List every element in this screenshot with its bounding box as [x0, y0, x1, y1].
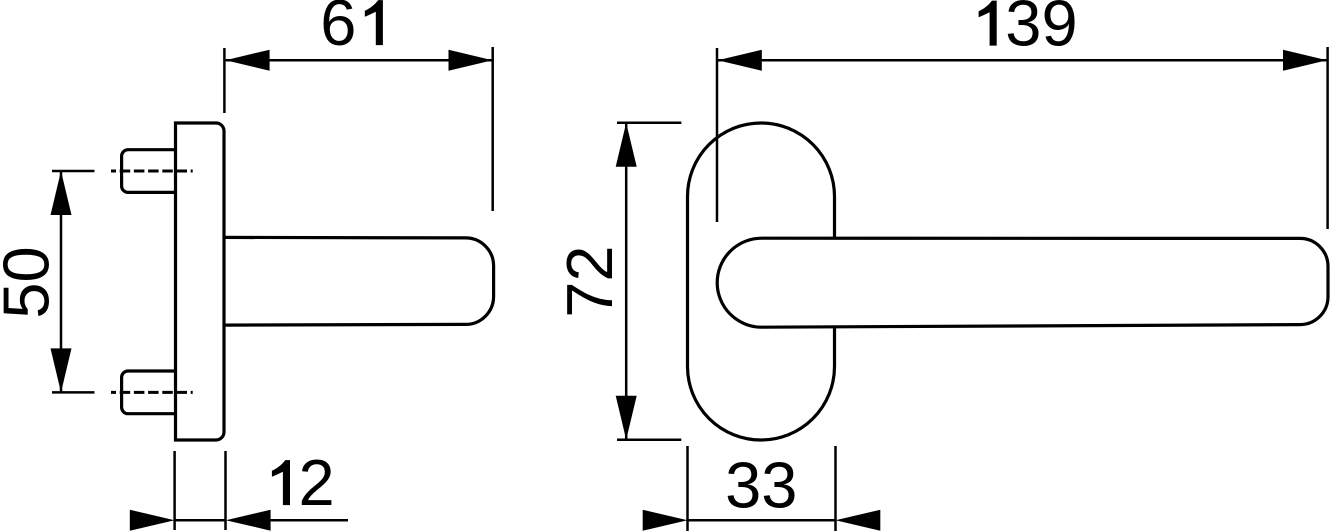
dimension line 50 — [60, 171, 63, 392]
dimension line 33 — [688, 519, 836, 522]
svg-text:72: 72 — [553, 245, 626, 317]
screw stud top (side view) — [122, 150, 176, 193]
svg-text:50: 50 — [0, 246, 63, 318]
dimension text 12 — [272, 460, 290, 505]
extension line 33 left — [686, 446, 689, 531]
dimension line 61 — [226, 59, 493, 62]
extension line 50 top — [52, 170, 95, 173]
dimension line 139 — [718, 59, 1327, 62]
dimension text 139 — [979, 1, 997, 46]
arrowhead 61 right — [449, 50, 493, 71]
extension line 139 left — [716, 48, 719, 222]
svg-text:39: 39 — [1005, 0, 1077, 60]
svg-text:2: 2 — [299, 446, 335, 519]
centerline bottom screw (dashed) — [111, 391, 193, 394]
extension line 72 bottom — [617, 438, 681, 441]
oval rose (front view) — [688, 123, 835, 440]
arrowhead 139 left — [718, 50, 762, 71]
dimension line 12 — [175, 519, 226, 522]
svg-text:33: 33 — [725, 448, 797, 521]
dimension line 72 — [625, 123, 628, 440]
arrowhead 139 right — [1283, 50, 1327, 71]
handle grip (side view) — [224, 237, 494, 325]
extension line 72 top — [617, 122, 681, 125]
arrowhead 33 left — [643, 510, 688, 531]
handle grip (front view) — [717, 238, 1328, 327]
svg-text:6: 6 — [320, 0, 356, 59]
arrowhead 12 left — [130, 510, 175, 531]
rose plate (side view) — [176, 123, 225, 440]
extension line 61 right — [491, 47, 494, 211]
arrowhead 72 down — [616, 396, 637, 440]
centerline top screw (dashed) — [111, 170, 193, 173]
extension line 61 left — [223, 48, 226, 113]
arrowhead 72 up — [616, 123, 637, 167]
extension line 12 right — [224, 451, 227, 530]
extension line 12 left — [173, 451, 176, 530]
arrowhead 12 right — [226, 510, 271, 531]
arrowhead 50 down — [51, 348, 72, 392]
arrowhead 50 up — [51, 171, 72, 215]
leader line 12 — [271, 519, 348, 522]
arrowhead 61 left — [226, 50, 270, 71]
extension line 50 bottom — [52, 391, 95, 394]
arrowhead 33 right — [836, 510, 881, 531]
extension line 139 right — [1326, 47, 1329, 229]
screw stud bottom (side view) — [122, 371, 176, 414]
extension line 33 right — [834, 446, 837, 531]
